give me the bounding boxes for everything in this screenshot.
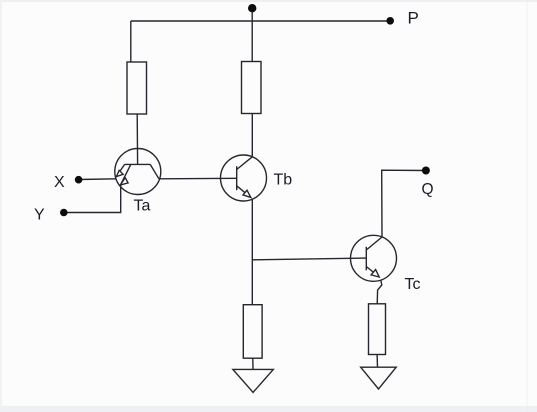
wire top node stub [251,8,253,62]
svg-text:Y: Y [34,207,45,224]
wire R3 to ground [252,358,254,369]
wire junction to Tc base [252,258,366,260]
transistor Tb [221,155,267,201]
svg-text:Ta: Ta [134,198,151,215]
svg-text:P: P [408,9,419,28]
wire top rail P [131,20,390,22]
node dot top rail [248,4,256,12]
wire X input [79,178,117,181]
wire R4 to ground [376,355,378,368]
wire R1 to Ta collector [136,114,138,164]
svg-text:X: X [54,174,65,191]
svg-text:Q: Q [422,181,434,198]
ground symbol right [361,367,397,389]
terminal dot Y [60,209,68,217]
transistor Ta [115,149,161,195]
terminal dot P [386,17,394,25]
terminal dot Q [422,167,430,175]
resistor R1 (left top) [127,62,147,114]
wire Tb emitter down [251,199,253,305]
transistor Tc [351,235,397,281]
wire R2 to Tb collector [251,114,253,157]
svg-text:Tb: Tb [274,172,293,189]
wire rail corner to left resistor [130,21,132,62]
svg-text:Tc: Tc [405,276,421,293]
wire Y input [64,185,121,212]
wire Tc emitter kink to R4 [377,280,382,304]
wire Tc collector to Q [382,170,426,237]
wire Ta collector to Tb base [159,177,237,180]
terminal dot X [75,176,83,184]
resistor R3 (bottom left) [243,305,262,359]
resistor R2 (middle top) [242,62,262,114]
resistor R4 (bottom right) [369,304,386,355]
ground symbol left [233,369,273,392]
